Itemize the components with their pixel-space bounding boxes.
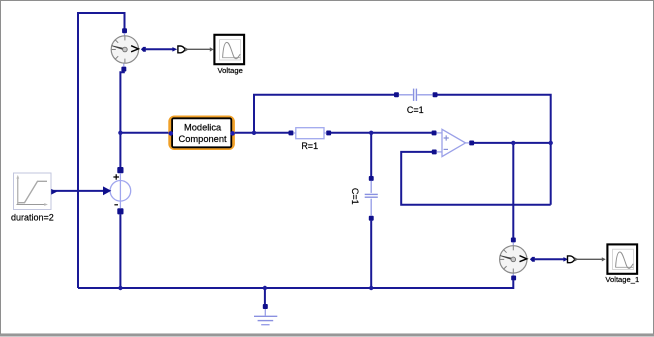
wire resistor R1 right pin to op-amp plus input bbox=[331, 132, 432, 134]
wire ground bus drop to ground symbol pin bbox=[264, 288, 266, 304]
wire capacitor C2 bottom pin to ground bus bbox=[370, 221, 372, 288]
wire main node to Modelica Component left pin bbox=[120, 132, 169, 134]
wire ground bus (bottom net) bbox=[78, 280, 513, 288]
capacitor C2 (vertical) bbox=[350, 176, 378, 221]
wire signal voltage source bottom pin to ground bus bbox=[119, 214, 121, 288]
wire gray connector to Voltage_1 scope bbox=[575, 258, 604, 260]
capacitor C1 (feedback, horizontal) bbox=[394, 89, 438, 115]
node junction feedback-cap branch bbox=[252, 131, 256, 135]
svg-text:Component: Component bbox=[179, 134, 227, 144]
ramp source block duration=2 bbox=[11, 173, 57, 223]
voltage sensor V1 bbox=[111, 28, 146, 71]
output connector D2 (sensor V2 to scope) bbox=[563, 256, 605, 263]
node junction capacitor C2 branch bbox=[369, 131, 373, 135]
svg-text:Voltage_1: Voltage_1 bbox=[605, 275, 639, 284]
wire left/top rail from ground bus up and over to voltage sensor V1 top pin bbox=[78, 13, 125, 288]
wire feedback capacitor C1 right pin to right feedback rail bbox=[437, 95, 550, 205]
svg-text:R=1: R=1 bbox=[301, 141, 318, 151]
wire op-amp output node down to sensor V2 top pin bbox=[512, 143, 514, 238]
wire op-amp output to feedback rail bbox=[474, 142, 551, 144]
node junction output meets feedback rail bbox=[549, 141, 553, 145]
resistor R1 bbox=[289, 128, 332, 151]
wire sensor V1 bottom pin jog down to vertical net bbox=[120, 71, 123, 168]
ground symbol bbox=[254, 304, 277, 325]
node junction op-amp output to sensor V2 bbox=[511, 141, 515, 145]
wire sensor V2 output signal bbox=[535, 258, 564, 260]
signal voltage source VS1 bbox=[103, 167, 131, 214]
Voltage scope block bbox=[214, 35, 244, 75]
wire branch up to feedback capacitor C1 left pin bbox=[254, 95, 394, 133]
node junction source bottom on ground bus bbox=[118, 286, 122, 290]
Voltage_1 scope block bbox=[605, 244, 639, 284]
svg-text:Modelica: Modelica bbox=[184, 122, 222, 132]
wire sensor V1 output signal bbox=[146, 48, 174, 50]
node junction main/source vertical bbox=[118, 131, 122, 135]
wire gray connector to Voltage scope bbox=[185, 48, 211, 50]
Modelica Component block bbox=[169, 117, 235, 148]
svg-text:C=1: C=1 bbox=[407, 105, 424, 115]
output connector D1 (sensor V1 to scope) bbox=[172, 46, 213, 53]
op-amp U1 bbox=[432, 129, 475, 156]
node junction capacitor C2 on bus bbox=[369, 286, 373, 290]
svg-text:duration=2: duration=2 bbox=[11, 213, 54, 223]
wire branch down to capacitor C2 top pin bbox=[370, 133, 372, 176]
wire Modelica Component right pin to resistor R1 left pin bbox=[234, 132, 289, 134]
voltage sensor V2 bbox=[500, 238, 535, 281]
wire op-amp inverting input feedback loop bbox=[401, 152, 551, 205]
wire ramp signal to source input arrow bbox=[53, 190, 104, 192]
svg-text:C=1: C=1 bbox=[350, 188, 360, 205]
svg-text:Voltage: Voltage bbox=[218, 66, 243, 75]
node junction ground symbol on bus bbox=[263, 286, 267, 290]
